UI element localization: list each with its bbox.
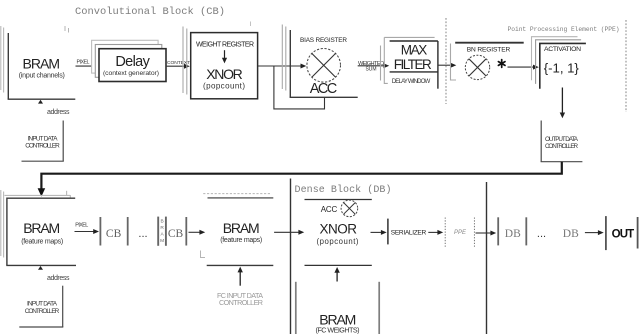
BRAM (feature maps) box [6, 198, 76, 265]
adder circle (ACC) [307, 49, 341, 83]
OUT bar (right) [637, 217, 639, 249]
svg-text:INPUT DATA: INPUT DATA [27, 301, 58, 308]
PPE dotted bar (left) [444, 218, 446, 248]
XNOR U2 top-right tick [250, 22, 252, 27]
svg-text:DB: DB [505, 228, 521, 240]
wire CB chain -> BRAM (feature maps) 2 [189, 231, 201, 233]
svg-text:(popcount): (popcount) [317, 237, 359, 246]
MAX FILTER box [390, 41, 438, 89]
svg-text:CB: CB [168, 228, 184, 240]
XNOR2 bottom border [305, 264, 372, 266]
svg-text:XNOR: XNOR [206, 66, 243, 82]
svg-text:PIXEL: PIXEL [77, 60, 90, 66]
wire DB chain -> OUT [585, 232, 599, 234]
svg-text:CONTROLLER: CONTROLLER [545, 143, 578, 150]
svg-text:ACC: ACC [310, 81, 338, 97]
svg-text:XNOR: XNOR [320, 221, 358, 236]
Delay stack ticks [65, 26, 69, 33]
svg-text:Dense Block (DB): Dense Block (DB) [295, 184, 392, 196]
svg-text:BRAM: BRAM [23, 55, 61, 71]
CB chain bar 1 [99, 217, 101, 246]
Delay shadow box outer [92, 40, 159, 73]
wire XNOR2 -> SERIALIZER [371, 231, 383, 233]
wire FC controller -> BRAM U5 [239, 272, 241, 286]
PPE dashed boundary (left) [445, 18, 447, 104]
svg-text:PIXEL: PIXEL [75, 223, 88, 229]
wire XNOR->ACC [258, 65, 302, 67]
svg-text:OUTPUT DATA: OUTPUT DATA [545, 136, 579, 143]
input data controller (bottom) box [19, 286, 63, 327]
DB chain bar 2 [525, 217, 527, 245]
BN register overline [455, 42, 524, 44]
svg-text:Delay: Delay [115, 54, 150, 70]
wire ACTIVATION -> output data controller [561, 88, 563, 114]
BRAM U5 bottom border [207, 264, 274, 266]
interstage BRAM narrow box [157, 217, 159, 246]
svg-text:MAX: MAX [401, 42, 428, 57]
wire CONTEXT (Delay->XNOR) [166, 65, 186, 67]
BN multiplier circle [465, 55, 489, 79]
BRAM (FC WEIGHTS) box [295, 282, 297, 334]
svg-text:(input channels): (input channels) [19, 73, 65, 80]
svg-text:DB: DB [563, 228, 579, 240]
BN stack corner [451, 44, 457, 81]
feedback wire ODC -> BRAM (feature maps) [41, 162, 561, 190]
ACTIVATION stack corners [532, 37, 578, 81]
svg-text:Point Processing Element (PPE): Point Processing Element (PPE) [508, 26, 620, 33]
svg-text:{-1, 1}: {-1, 1} [544, 60, 580, 75]
svg-text:CONTROLLER: CONTROLLER [219, 298, 263, 307]
svg-text:address: address [47, 109, 70, 116]
Delay shadow box middle [95, 45, 162, 78]
svg-text:INPUT DATA: INPUT DATA [28, 135, 59, 142]
address arrowhead into BRAM U4 [38, 266, 43, 270]
wire BRAM U6 -> XNOR2 [336, 272, 338, 282]
BRAM U4 stack lines [1, 190, 71, 258]
DB chain bar 1 [497, 217, 499, 245]
weight register arrow (down into XNOR) [224, 50, 226, 59]
ACC U3 stack lines [282, 25, 286, 91]
wire PIXEL (BRAM->Delay) [76, 65, 96, 67]
svg-text:...: ... [138, 228, 147, 240]
svg-text:BIAS REGISTER: BIAS REGISTER [300, 37, 347, 44]
input data controller (top) box [22, 121, 64, 162]
wire BN -> ACTIVATION [508, 66, 535, 68]
svg-text:BRAM: BRAM [23, 220, 60, 236]
wire MAX FILTER -> BN multiplier [439, 64, 452, 66]
svg-text:(feature maps): (feature maps) [220, 237, 262, 244]
CB chain bar 2 [127, 217, 129, 246]
svg-text:R: R [160, 225, 164, 231]
svg-text:SUM: SUM [365, 66, 376, 72]
svg-text:BRAM: BRAM [223, 220, 260, 236]
svg-text:(context generator): (context generator) [103, 70, 159, 77]
wire SERIALIZER -> PPE [428, 231, 438, 233]
svg-text:(feature maps): (feature maps) [21, 239, 63, 246]
svg-text:FILTER: FILTER [394, 57, 432, 72]
BRAM U1 (input channels) box [8, 33, 76, 99]
Dense Block right boundary [486, 182, 488, 334]
PPE dashed boundary (right) [625, 20, 627, 112]
svg-text:BN REGISTER: BN REGISTER [467, 47, 511, 54]
XNOR U2 stack lines [183, 27, 187, 95]
ACTIVATION box [540, 43, 586, 88]
BRAM U5 corner tick [201, 251, 206, 258]
XNOR2 top border [305, 199, 372, 201]
accumulator feedback wire [274, 67, 325, 109]
svg-text:PPE: PPE [454, 230, 467, 236]
svg-text:OUT: OUT [612, 228, 635, 240]
ACC block frame [290, 30, 358, 97]
svg-text:DELAY WINDOW: DELAY WINDOW [392, 79, 431, 85]
PPE dotted bar (right) [473, 218, 475, 248]
output data controller box [541, 121, 583, 162]
svg-text:(popcount): (popcount) [203, 81, 245, 90]
svg-text:B: B [160, 219, 163, 225]
MAX FILTER stack lines [381, 37, 435, 83]
svg-text:CONTROLLER: CONTROLLER [25, 143, 60, 150]
svg-text:SERIALIZER: SERIALIZER [391, 229, 427, 236]
Delay (context generator) box [99, 49, 166, 82]
OUT bar (left) [605, 216, 607, 250]
svg-text:WEIGHT REGISTER: WEIGHT REGISTER [196, 42, 254, 49]
Dense Block left boundary [290, 179, 292, 334]
BRAM U1 stack lines [1, 26, 4, 93]
svg-text:ACTIVATION: ACTIVATION [544, 46, 581, 53]
BRAM U5 top stack lines [203, 193, 270, 195]
wire WEIGHTED SUM (ACC->MAX FILTER) [358, 65, 385, 67]
svg-text:ACC: ACC [321, 205, 338, 214]
svg-text:address: address [47, 275, 70, 282]
XNOR (popcount) box [191, 33, 258, 99]
multiply asterisk [498, 60, 505, 68]
wire BRAM U5 -> XNOR2 [274, 231, 299, 233]
svg-text:CONTROLLER: CONTROLLER [25, 308, 60, 315]
CB chain bar 3 [185, 217, 187, 246]
svg-text:CB: CB [106, 228, 122, 240]
svg-text:Convolutional Block (CB): Convolutional Block (CB) [75, 6, 225, 18]
address arrowhead into BRAM U1 [38, 100, 43, 104]
SERIALIZER bar [387, 219, 389, 245]
svg-text:(FC WEIGHTS): (FC WEIGHTS) [316, 325, 360, 334]
dense adder circle [341, 200, 358, 217]
svg-text:M: M [160, 238, 164, 244]
wire PIXEL (BRAM->CB chain) [75, 231, 95, 233]
wire PPE -> DB chain [476, 232, 492, 234]
svg-text:...: ... [537, 228, 546, 240]
